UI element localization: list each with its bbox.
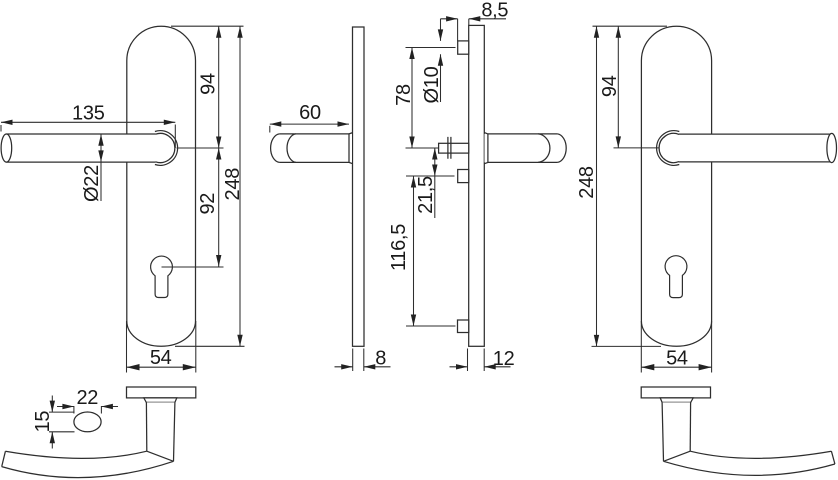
dimension 8 bbox=[335, 349, 391, 372]
svg-text:12: 12 bbox=[493, 348, 515, 370]
dimension 21,5 bbox=[406, 148, 455, 218]
dimension 94 right bbox=[593, 26, 668, 148]
svg-text:248: 248 bbox=[576, 166, 598, 199]
svg-text:92: 92 bbox=[197, 193, 219, 215]
bottom-left rose collar bbox=[144, 398, 177, 403]
side view 12mm backplate strip bbox=[469, 25, 485, 346]
side view handle on 12mm strip bbox=[484, 133, 566, 164]
svg-text:21,5: 21,5 bbox=[415, 176, 437, 214]
right backplate front view bbox=[641, 26, 711, 346]
svg-text:15: 15 bbox=[32, 411, 54, 433]
dimension 60 bbox=[270, 121, 349, 132]
svg-text:22: 22 bbox=[76, 387, 98, 409]
svg-text:60: 60 bbox=[299, 102, 321, 124]
dimension 22 bbox=[57, 404, 118, 414]
dimension 12 bbox=[450, 349, 511, 372]
svg-text:54: 54 bbox=[666, 347, 688, 369]
right euro-profile keyhole bbox=[665, 256, 687, 298]
svg-text:94: 94 bbox=[599, 75, 621, 97]
bottom-right rose collar bbox=[660, 398, 693, 403]
svg-text:135: 135 bbox=[72, 102, 105, 124]
bottom-right neck and curved grip bbox=[662, 402, 835, 475]
dimension Ø22 bbox=[98, 134, 103, 201]
bottom-right rose top view: plate bbox=[641, 387, 710, 398]
svg-text:8: 8 bbox=[375, 347, 386, 369]
dimension 54 left bbox=[127, 321, 196, 373]
top screw lug bbox=[458, 41, 469, 54]
svg-text:54: 54 bbox=[150, 347, 172, 369]
grip end cross-section ellipse 22x15 bbox=[74, 412, 101, 432]
dimension 54 right bbox=[641, 321, 711, 373]
left lever handle front view bbox=[1, 131, 178, 166]
dimension 78 bbox=[406, 48, 456, 149]
right lever handle front view bbox=[657, 131, 838, 166]
svg-text:116,5: 116,5 bbox=[388, 224, 410, 271]
svg-text:Ø10: Ø10 bbox=[421, 66, 443, 103]
spindle bolt bbox=[439, 137, 469, 159]
svg-text:94: 94 bbox=[197, 73, 219, 95]
svg-text:78: 78 bbox=[393, 84, 415, 106]
bottom screw lug bbox=[458, 320, 469, 333]
dimension 116,5 bbox=[406, 176, 456, 326]
dimension Ø10 bbox=[438, 19, 443, 102]
dimension 248 left bbox=[175, 26, 245, 346]
dimension 8,5 bbox=[441, 16, 507, 41]
side view handle (60) bbox=[271, 133, 353, 164]
left euro-profile keyhole bbox=[151, 256, 173, 297]
svg-text:248: 248 bbox=[222, 168, 244, 201]
svg-text:Ø22: Ø22 bbox=[81, 165, 103, 202]
bottom-left rose top view: plate bbox=[127, 387, 196, 398]
bottom-left neck and curved grip bbox=[2, 402, 175, 477]
left backplate front view bbox=[127, 26, 196, 346]
side view 8mm backplate strip bbox=[353, 27, 365, 346]
dimension 248 right bbox=[592, 26, 662, 346]
middle screw lug bbox=[458, 170, 469, 183]
dimension 92 bbox=[162, 148, 224, 267]
dimension 94 left bbox=[171, 26, 244, 148]
dimension 15 bbox=[49, 396, 75, 449]
svg-text:8,5: 8,5 bbox=[481, 0, 508, 21]
dimension 135 bbox=[1, 120, 175, 148]
